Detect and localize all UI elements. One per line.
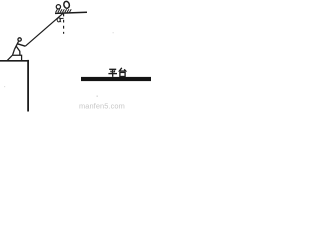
platform bar — [81, 77, 151, 81]
scan speckle 2 — [4, 86, 5, 87]
person: torso — [15, 41, 19, 49]
pulley label O (drawn as slanted ellipse glyph) — [63, 1, 70, 9]
step block on pedestal — [7, 55, 21, 60]
rope from hands to pulley point — [25, 13, 63, 46]
person: front leg — [16, 46, 20, 55]
person: head — [18, 38, 21, 41]
angle label a (alpha) drawn as glyph paths — [57, 18, 61, 22]
dashed vertical reference line — [63, 14, 65, 34]
ceiling beam line — [55, 12, 87, 13]
ceiling hatching — [56, 9, 72, 12]
label 平台 drawn as strokes: 平 — [108, 69, 117, 77]
svg-text:manfen5.com: manfen5.com — [79, 102, 125, 111]
pedestal right edge — [27, 60, 29, 112]
pedestal top edge — [0, 60, 29, 62]
scan speckle 1 — [97, 96, 98, 97]
person: back leg — [13, 49, 15, 55]
angle arc — [58, 17, 63, 20]
pulley circle O — [56, 5, 60, 9]
scan speckle 3 — [113, 32, 114, 33]
label 平台 drawn as strokes: 台 — [119, 68, 125, 77]
person: arm — [18, 44, 26, 46]
